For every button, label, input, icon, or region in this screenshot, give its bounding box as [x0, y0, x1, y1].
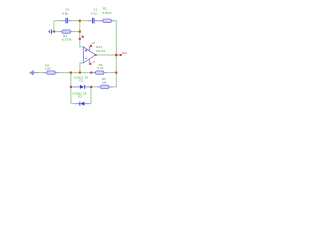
lead R1 left: [60, 31, 62, 33]
junction D1-R5 node: [90, 86, 92, 88]
diode D1: [80, 85, 85, 89]
capacitor C1: [92, 18, 94, 24]
wire R1 row left: [55, 31, 60, 33]
wire node B vertical to diode loop: [70, 73, 72, 87]
resistor R2: [103, 19, 112, 22]
lead ground G1: [52, 31, 54, 33]
op-amp V+ post: [90, 45, 92, 47]
junction node A top: [79, 20, 81, 22]
lead ground G2: [33, 72, 38, 74]
svg-text:8.2k: 8.2k: [97, 66, 103, 70]
capacitor C4: [66, 18, 68, 24]
wire mid row R4 to R3: [59, 72, 92, 74]
op-amp plus mark: [85, 49, 87, 51]
wire diode loop right vertical: [90, 87, 92, 104]
lead C4 left: [61, 20, 66, 22]
svg-text:R2: R2: [103, 6, 107, 10]
wire D2 row right: [90, 103, 92, 105]
wire D2 row left: [71, 103, 75, 105]
lead D2 anode: [85, 103, 90, 105]
resistor R1: [62, 30, 70, 33]
lead C1 left: [88, 20, 92, 22]
wire node A vertical: [79, 21, 81, 39]
wire top net left segment: [54, 20, 61, 22]
op-amp minus mark: [85, 57, 87, 59]
wire op-amp minus input: [80, 63, 84, 73]
svg-text:6.187k: 6.187k: [62, 38, 72, 42]
wire R5 to right vertical corner: [113, 85, 117, 88]
svg-text:D2: D2: [78, 95, 82, 99]
node A lower post: [79, 38, 81, 40]
junction J3: [90, 72, 92, 74]
node label small red mark: [82, 35, 84, 37]
svg-text:Out: Out: [122, 51, 127, 55]
output terminal post: [120, 54, 122, 56]
wire mid row R3 to right vertical: [107, 72, 116, 74]
wire op-amp output: [96, 54, 121, 56]
junction J2: [79, 72, 81, 74]
resistor R3: [96, 71, 104, 74]
lead C1 right: [94, 20, 99, 22]
wire R5 node to R5: [92, 86, 97, 88]
lead D1 cathode: [85, 86, 91, 88]
wire left vertical: [53, 21, 55, 32]
lead C4 right: [68, 20, 73, 22]
lead op-amp V- stub: [89, 60, 91, 64]
lead R2 right: [111, 20, 114, 22]
wire to op-amp plus input: [80, 39, 84, 47]
lead R1 right: [70, 31, 72, 33]
junction diode loop left: [70, 86, 72, 88]
wire mid row near input ground: [38, 72, 43, 74]
wire R1 row right: [73, 31, 80, 33]
lead R4 left: [43, 72, 47, 74]
lead D2 cathode: [75, 103, 80, 105]
wire top net right corner to R2: [114, 21, 116, 22]
svg-text:1.8k: 1.8k: [45, 67, 51, 71]
svg-text:D1: D1: [79, 79, 83, 83]
lead R3 right: [104, 72, 108, 74]
ground G1: [48, 29, 51, 34]
ground G2: [30, 70, 33, 75]
op-amp U1 triangle: [83, 47, 95, 63]
svg-text:5.357k: 5.357k: [102, 11, 112, 15]
resistor R4: [47, 71, 55, 74]
junction output net: [115, 54, 117, 56]
svg-text:-V: -V: [92, 60, 96, 64]
svg-text:10k: 10k: [102, 81, 107, 85]
lead R5 right: [109, 86, 113, 88]
ground G1 post: [53, 31, 55, 33]
lead R2 left: [99, 20, 103, 22]
diode D2: [79, 102, 84, 106]
lead R3 left: [92, 72, 96, 74]
svg-text:6.8n: 6.8n: [62, 12, 68, 16]
lead D1 anode: [72, 86, 80, 88]
lead R4 right: [55, 72, 59, 74]
junction J1: [70, 72, 72, 74]
resistor R5: [101, 85, 109, 88]
junction node A mid: [79, 31, 81, 33]
wire top net between C4 and C1: [72, 20, 88, 22]
svg-text:0.1n: 0.1n: [91, 11, 97, 15]
lead op-amp V+ stub: [89, 46, 91, 50]
lead R5 left: [97, 86, 101, 88]
wire diode loop left vertical: [70, 87, 72, 104]
op-amp V- post: [89, 63, 91, 65]
op-amp output post: [95, 54, 97, 56]
wire right vertical (output net): [115, 21, 117, 87]
wire D1 to R5 node: [90, 86, 93, 88]
junction J4: [115, 72, 117, 74]
svg-text:UA741: UA741: [96, 49, 106, 53]
